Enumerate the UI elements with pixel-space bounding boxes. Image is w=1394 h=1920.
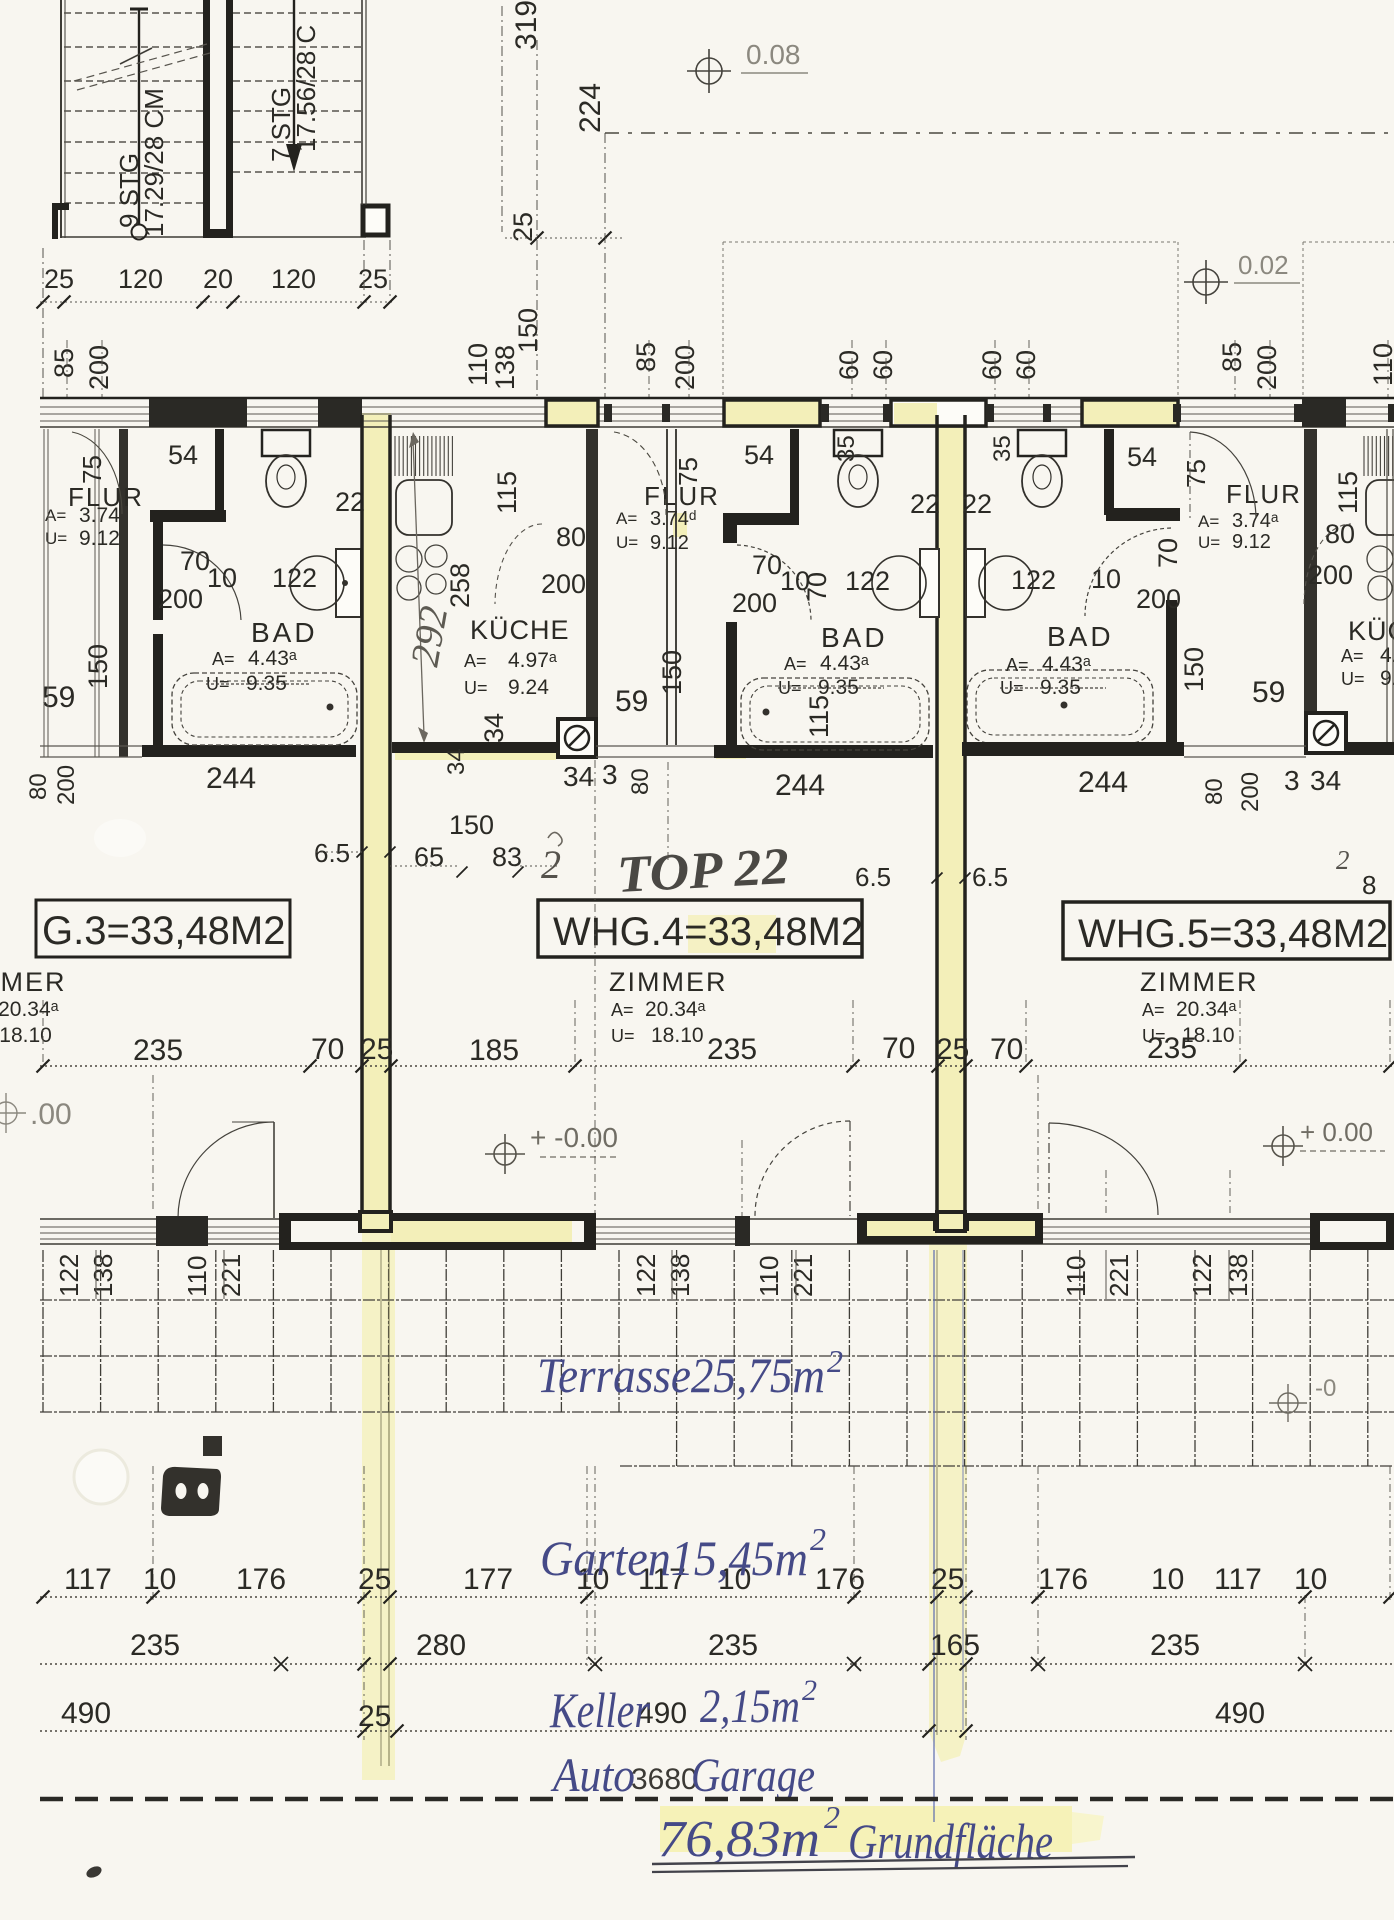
svg-text:9.24: 9.24 — [508, 676, 549, 699]
svg-text:54: 54 — [744, 440, 774, 470]
svg-text:65: 65 — [414, 842, 444, 872]
svg-text:244: 244 — [206, 762, 256, 795]
bottom wall cap unit4 — [735, 1216, 750, 1246]
svg-text:200: 200 — [732, 588, 777, 618]
svg-text:25: 25 — [360, 1033, 393, 1066]
unit4 wash basin — [872, 556, 926, 610]
svg-text:U=: U= — [464, 678, 488, 698]
svg-text:BAD: BAD — [821, 622, 888, 653]
unit4 entrance door arc — [614, 432, 666, 515]
unit5 bathtub outer — [967, 670, 1153, 743]
stair steps flight 1 — [64, 12, 203, 14]
unit4 corridor left wall lines — [666, 429, 668, 745]
unit3 FLUR/54 wall L vertical — [215, 429, 224, 513]
pencil scribble above 2 — [548, 832, 562, 846]
svg-text:54: 54 — [168, 440, 198, 470]
svg-text:115: 115 — [804, 695, 834, 738]
window end caps on top band — [604, 404, 612, 422]
svg-text:59: 59 — [42, 681, 75, 714]
svg-text:110: 110 — [1368, 343, 1394, 386]
kitchen stove burners — [396, 546, 422, 572]
svg-text:4.43ᵃ: 4.43ᵃ — [1042, 653, 1091, 676]
lower dim line 2 — [40, 1663, 1394, 1665]
svg-text:83: 83 — [492, 842, 522, 872]
svg-text:80: 80 — [25, 773, 52, 800]
unit6 kitchen hatch — [1364, 436, 1393, 476]
door leaf unit4 terrace — [849, 1121, 851, 1216]
unit4 BAD bottom wall — [714, 745, 933, 758]
WHG.4 label box — [538, 900, 862, 957]
unit6 bottom wall piece — [1346, 742, 1394, 755]
stair bottom landing line — [61, 236, 366, 238]
lower dim line 3 — [40, 1730, 1394, 1732]
svg-text:235: 235 — [1150, 1629, 1200, 1662]
svg-text:10: 10 — [207, 563, 237, 593]
svg-text:150: 150 — [449, 810, 494, 840]
party wall 1 lower bar edge lines — [380, 1250, 382, 1766]
svg-text:Garten15,45m: Garten15,45m — [540, 1530, 808, 1586]
svg-text:60: 60 — [868, 350, 898, 380]
svg-text:177: 177 — [463, 1563, 513, 1596]
svg-text:2,15m: 2,15m — [700, 1680, 800, 1733]
svg-text:138: 138 — [1223, 1254, 1253, 1297]
svg-text:3.74ᵈ: 3.74ᵈ — [650, 508, 696, 530]
unit3 far-left wall thin double — [43, 429, 45, 757]
svg-text:2: 2 — [827, 1343, 843, 1379]
unit5 sink niche — [966, 549, 985, 617]
highlighter: party wall 2 lower bar — [929, 1227, 967, 1732]
svg-text:6.5: 6.5 — [314, 838, 350, 868]
svg-text:235: 235 — [133, 1034, 183, 1067]
level mark 0.02 — [1184, 260, 1228, 304]
highlighter: top wall chunk unit4 — [726, 403, 818, 426]
svg-text:319: 319 — [510, 0, 543, 50]
svg-text:A=: A= — [611, 1000, 634, 1020]
svg-text:80: 80 — [556, 522, 586, 552]
svg-text:0.08: 0.08 — [746, 39, 801, 70]
corridor threshold lines unit3 left — [40, 745, 142, 747]
svg-text:20: 20 — [203, 264, 233, 294]
vertical dash line x502 — [501, 6, 503, 232]
svg-text:110: 110 — [463, 343, 493, 386]
unit4 sink niche — [920, 549, 939, 617]
svg-text:115: 115 — [1333, 471, 1363, 514]
svg-text:25: 25 — [508, 212, 538, 242]
svg-text:KÜCHE: KÜCHE — [470, 615, 570, 645]
top wall solid segment A (unit3 54-room) — [149, 399, 247, 427]
party wall 2 lower blue line — [933, 1250, 935, 1822]
small ticks near 6.5 labels — [357, 847, 368, 858]
svg-text:2: 2 — [802, 1674, 817, 1707]
svg-text:9.12: 9.12 — [79, 527, 120, 550]
unit4 54-room wall vertical — [790, 429, 799, 514]
svg-text:4.43ᵃ: 4.43ᵃ — [820, 652, 869, 675]
svg-text:6.5: 6.5 — [972, 862, 1008, 892]
party wall2 notch in bottom wall — [937, 1212, 965, 1231]
svg-text:22: 22 — [910, 489, 940, 519]
svg-text:80: 80 — [627, 768, 654, 795]
unit3 WC cistern — [262, 430, 310, 456]
highlighter: unit4 corner at FLUR step — [673, 513, 687, 537]
bottom wall walled rect B — [857, 1213, 1043, 1221]
svg-text:54: 54 — [1127, 442, 1157, 472]
separator verticals between dim pairs — [95, 1250, 97, 1299]
svg-text:138: 138 — [490, 345, 520, 390]
WHG.5 label box — [1063, 902, 1390, 959]
svg-text:110: 110 — [182, 1256, 212, 1297]
party wall 2 olive edge lines — [936, 1250, 938, 1735]
faint balcony outline rect — [723, 241, 1178, 243]
corridor extension dash below unit4 — [667, 762, 669, 862]
svg-text:122: 122 — [631, 1254, 661, 1297]
svg-text:150: 150 — [1179, 647, 1209, 692]
unit4 WC cistern — [834, 430, 882, 456]
terrace tile grid verticals — [43, 1250, 1368, 1466]
svg-text:122: 122 — [54, 1254, 84, 1297]
svg-text:138: 138 — [88, 1254, 118, 1297]
unit5 54-room wall vertical — [1104, 429, 1114, 515]
svg-text:34: 34 — [1310, 765, 1341, 796]
svg-text:3: 3 — [1284, 765, 1300, 796]
right edge kitchen wall lines — [1386, 429, 1388, 742]
svg-text:9.12: 9.12 — [1232, 531, 1271, 553]
unit6 kitchen burners — [1367, 546, 1393, 572]
stair dimension line — [40, 301, 392, 303]
svg-text:8: 8 — [1362, 870, 1376, 900]
kitchen bottom wall — [392, 742, 558, 753]
svg-text:A=: A= — [464, 651, 487, 671]
svg-text:258: 258 — [445, 563, 475, 608]
vertical dash line x605 — [604, 133, 606, 397]
unit3 bathtub inner — [181, 681, 348, 737]
flight 1 center line with circle — [138, 9, 140, 225]
extension lines under top dims — [648, 340, 650, 397]
WHG.3 label box — [36, 900, 290, 957]
party wall 2 bottom cap — [935, 1213, 967, 1229]
party wall 1 black edges — [360, 415, 364, 1222]
stair steps flight 2 — [233, 12, 362, 14]
unit3 FLUR/54 wall L horizontal — [150, 510, 226, 522]
unit5 entrance door arc — [1190, 432, 1256, 518]
svg-text:25: 25 — [931, 1563, 964, 1596]
svg-text:490: 490 — [61, 1697, 111, 1730]
svg-text:165: 165 — [930, 1629, 980, 1662]
highlighter: top wall chunk unit5 — [1084, 403, 1176, 426]
unit3 BAD door arc — [163, 545, 241, 620]
ink speck lower left — [85, 1864, 104, 1880]
svg-text:70: 70 — [802, 572, 832, 602]
svg-text:ZIMMER: ZIMMER — [609, 967, 727, 997]
unit3 corridor wall — [119, 429, 128, 757]
door arc unit4 terrace — [755, 1121, 850, 1216]
svg-text:22: 22 — [962, 489, 992, 519]
unit5 bathtub inner — [976, 678, 1144, 735]
svg-text:2: 2 — [541, 842, 561, 887]
stair right wall double line — [361, 0, 363, 205]
door arc unit3 terrace — [178, 1122, 274, 1218]
svg-text:85: 85 — [1217, 342, 1247, 372]
unit3 sink niche — [336, 549, 361, 617]
extension verticals below stair — [42, 248, 44, 397]
unit6 kitchen sink basin — [1366, 480, 1394, 535]
svg-text:ZIMMER: ZIMMER — [1140, 967, 1258, 997]
svg-text:A=: A= — [784, 654, 807, 674]
pencil measuring arrow in kitchen — [413, 440, 424, 735]
svg-text:A=: A= — [616, 509, 637, 528]
svg-text:122: 122 — [845, 566, 890, 596]
svg-text:75: 75 — [1181, 459, 1211, 488]
unit3 left outer thin wall lines — [94, 429, 96, 757]
svg-text:176: 176 — [1038, 1563, 1088, 1596]
svg-text:115: 115 — [492, 471, 522, 514]
highlighter: bottom wall fill unit4 (right of wall1) — [391, 1221, 572, 1243]
extension verticals to dim row — [42, 1000, 44, 1066]
svg-text:A=: A= — [1142, 1000, 1165, 1020]
highlighter: top wall chunk kitchen u4 — [548, 402, 597, 426]
svg-text:17.56/28 C: 17.56/28 C — [291, 25, 321, 152]
extension verticals lower area — [152, 1466, 154, 1600]
svg-text:235: 235 — [130, 1629, 180, 1662]
svg-text:0.02: 0.02 — [1238, 250, 1289, 280]
svg-text:FLUR: FLUR — [1226, 479, 1302, 509]
door arc unit5 terrace — [1049, 1123, 1158, 1215]
punch hole left middle — [94, 819, 146, 857]
svg-text:2: 2 — [1336, 845, 1350, 875]
top wall solid segment B (unit3 right) — [318, 399, 362, 427]
bottom wall walled rect C right — [1310, 1213, 1394, 1221]
unit4 BAD left wall lower — [726, 622, 737, 745]
svg-text:25: 25 — [936, 1033, 969, 1066]
svg-text:6.5: 6.5 — [855, 862, 891, 892]
top wall segment kitchen u4 (yellow filled) — [546, 400, 598, 426]
svg-text:17.29/28 CM: 17.29/28 CM — [139, 88, 169, 237]
svg-text:70: 70 — [752, 550, 782, 580]
svg-text:224: 224 — [574, 83, 607, 133]
unit4 BAD door arc — [737, 545, 811, 620]
svg-text:20.34ᵃ: 20.34ᵃ — [645, 998, 706, 1021]
svg-text:10: 10 — [1091, 564, 1121, 594]
electric stove symbol unit4 — [558, 719, 596, 757]
svg-text:2: 2 — [810, 1521, 826, 1557]
svg-text:A=: A= — [212, 649, 235, 669]
stair bottom-left L wall — [52, 203, 69, 210]
highlighter: bottom wall fill left of wall2 — [865, 1220, 937, 1239]
svg-text:150: 150 — [83, 644, 113, 689]
svg-text:117: 117 — [64, 1563, 112, 1596]
svg-text:35: 35 — [989, 435, 1016, 462]
highlighter: kitchen bottom wall strip — [395, 749, 556, 760]
svg-text:185: 185 — [469, 1034, 519, 1067]
svg-text:70: 70 — [882, 1032, 915, 1065]
unit3 BAD left wall lower — [153, 634, 163, 746]
top wall segment unit5 54-room (yellow filled) — [1082, 400, 1178, 426]
svg-text:200: 200 — [84, 345, 114, 390]
svg-text:.00: .00 — [30, 1098, 72, 1131]
svg-text:BAD: BAD — [251, 617, 318, 648]
unit3 entrance door arc — [72, 432, 122, 514]
unit5 WC cistern — [1018, 430, 1066, 456]
svg-text:176: 176 — [236, 1563, 286, 1596]
svg-text:85: 85 — [631, 342, 661, 372]
corridor threshold lines unit4 — [596, 745, 714, 747]
svg-text:35: 35 — [833, 435, 860, 462]
svg-text:200: 200 — [670, 345, 700, 390]
svg-text:59: 59 — [1252, 676, 1285, 709]
svg-text:3680: 3680 — [631, 1763, 698, 1796]
kitchen right wall — [586, 429, 598, 745]
svg-text:U=: U= — [1341, 669, 1365, 689]
svg-text:25: 25 — [358, 264, 388, 294]
svg-text:200: 200 — [1308, 560, 1353, 590]
svg-text:200: 200 — [541, 569, 586, 599]
svg-text:2: 2 — [824, 1799, 840, 1835]
corridor threshold lines unit5 — [1184, 745, 1306, 747]
svg-text:60: 60 — [977, 350, 1007, 380]
middle dimension line — [40, 1065, 1394, 1067]
svg-text:+ -0.00: + -0.00 — [530, 1122, 618, 1153]
svg-text:120: 120 — [118, 264, 163, 294]
svg-text:75: 75 — [77, 455, 107, 484]
svg-text:70: 70 — [990, 1033, 1023, 1066]
svg-text:A= 20.34ᵃ: A= 20.34ᵃ — [0, 998, 59, 1021]
svg-text:85: 85 — [49, 348, 79, 378]
ticks on column — [531, 232, 544, 245]
svg-text:110: 110 — [1061, 1256, 1091, 1297]
kitchen door arc dashed — [495, 524, 542, 604]
unit5 54-room wall horizontal — [1106, 508, 1180, 521]
svg-text:Terrasse25,75m: Terrasse25,75m — [537, 1347, 825, 1403]
bottom wall cap unit3 left — [156, 1216, 208, 1246]
highlighter: party wall 2 bar tail — [929, 1732, 967, 1762]
svg-text:235: 235 — [708, 1629, 758, 1662]
svg-text:20.34ᵃ: 20.34ᵃ — [1176, 998, 1237, 1021]
svg-text:120: 120 — [271, 264, 316, 294]
svg-text:76,83m: 76,83m — [658, 1811, 820, 1868]
svg-text:34: 34 — [563, 761, 594, 792]
svg-text:U=: U= — [1198, 533, 1220, 552]
svg-text:60: 60 — [834, 350, 864, 380]
svg-text:235: 235 — [1147, 1032, 1197, 1065]
svg-text:G.3=33,48M2: G.3=33,48M2 — [42, 909, 286, 953]
svg-text:70: 70 — [1153, 538, 1183, 568]
door leaf unit3 terrace — [273, 1122, 275, 1218]
svg-text:122: 122 — [1187, 1254, 1217, 1297]
unit5 wash basin — [979, 556, 1033, 610]
stair left wall lines — [60, 0, 62, 238]
unit4 bathtub inner — [750, 686, 920, 742]
highlighter: bottom wall fill right of wall2 — [966, 1220, 1036, 1239]
electric stove symbol unit6 — [1306, 713, 1346, 753]
svg-text:60: 60 — [1011, 350, 1041, 380]
stair middle wall (double) — [203, 0, 210, 238]
svg-text:75: 75 — [673, 457, 703, 486]
terrace tile grid horizontals — [40, 1300, 1394, 1466]
party wall1 notch in bottom wall — [360, 1212, 391, 1231]
svg-text:U= 18.10: U= 18.10 — [0, 1024, 52, 1047]
svg-text:18.10: 18.10 — [651, 1024, 704, 1047]
unit4 WC bowl — [838, 455, 878, 507]
unit6 kitchen door arc dashed — [1304, 524, 1351, 604]
punch hole lower left — [74, 1450, 128, 1504]
unit3 BAD left wall upper — [153, 522, 163, 620]
svg-text:BAD: BAD — [1047, 621, 1114, 652]
stair diagonal break lines — [74, 44, 207, 81]
highlighter: unit4 bad bottom left strip — [716, 747, 746, 759]
bottom wall walled rect A (unit 3/4 doors) — [279, 1213, 596, 1221]
unit3 bathtub outer — [172, 673, 357, 745]
level mark right lower (terrace) — [1269, 1384, 1307, 1422]
svg-text:200: 200 — [53, 765, 80, 805]
unit3 wash basin — [290, 556, 344, 610]
highlighter: party wall 1 lower bar — [362, 1230, 395, 1780]
vertical dash line x537 — [536, 40, 538, 397]
kitchen sink basin — [396, 480, 452, 535]
svg-text:4.97ᵃ: 4.97ᵃ — [508, 649, 557, 672]
svg-text:59: 59 — [615, 685, 648, 718]
svg-text:200: 200 — [1136, 584, 1181, 614]
svg-text:Keller: Keller — [549, 1682, 650, 1738]
svg-text:25: 25 — [44, 264, 74, 294]
svg-text:117: 117 — [1214, 1563, 1262, 1596]
extension verticals middle band lower — [152, 1075, 154, 1213]
long dashed line y133 — [605, 132, 1394, 134]
svg-text:3: 3 — [602, 759, 618, 790]
level mark center — [485, 1134, 525, 1174]
highlighter: grundflaeche band — [660, 1806, 1072, 1852]
svg-text:200: 200 — [1237, 772, 1264, 812]
top wall segment spanning party wall 2 — [891, 400, 986, 426]
bottom wall window band lines — [40, 1218, 1394, 1220]
flight 2 center line with arrow — [293, 0, 295, 148]
level mark 0.08 — [687, 49, 731, 93]
svg-text:490: 490 — [1215, 1697, 1265, 1730]
extra extension dashes near unit5 door — [1105, 1170, 1107, 1213]
svg-text:176: 176 — [815, 1563, 865, 1596]
svg-text:34: 34 — [443, 748, 470, 775]
svg-text:-0: -0 — [1315, 1375, 1336, 1402]
svg-text:221: 221 — [788, 1254, 818, 1297]
svg-text:122: 122 — [1011, 565, 1056, 595]
svg-text:110: 110 — [754, 1256, 784, 1297]
svg-text:A=: A= — [1006, 655, 1029, 675]
stair pillar square (top of party wall 1) — [363, 206, 388, 235]
left margin level mark circle — [0, 1093, 26, 1133]
top wall segment unit4 54-room (yellow filled) — [724, 400, 820, 426]
svg-text:25: 25 — [358, 1563, 391, 1596]
svg-text:WHG.4=33,48M2: WHG.4=33,48M2 — [553, 910, 863, 954]
svg-text:ZIMMER: ZIMMER — [0, 967, 66, 997]
kitchen hatch (drainboard) — [395, 436, 452, 476]
svg-text:200: 200 — [158, 584, 203, 614]
svg-text:9.12: 9.12 — [650, 532, 689, 554]
svg-text:34: 34 — [479, 713, 509, 743]
unit4 54-room wall horizontal — [723, 513, 799, 525]
svg-text:244: 244 — [1078, 766, 1128, 799]
unit4 FLUR/BAD step wall upper — [723, 513, 737, 543]
svg-text:+ 0.00: + 0.00 — [1300, 1117, 1373, 1147]
svg-text:280: 280 — [416, 1629, 466, 1662]
svg-text:25: 25 — [358, 1700, 391, 1733]
svg-text:Auto: Auto — [550, 1749, 635, 1802]
svg-text:3.74: 3.74 — [79, 504, 120, 527]
highlighter: party wall 1 top — [361, 413, 391, 1230]
lower dim line 1 — [40, 1596, 1394, 1598]
svg-text:TOP 22: TOP 22 — [616, 838, 791, 904]
svg-text:10: 10 — [1151, 1563, 1184, 1596]
top exterior wall: window band lines — [40, 397, 1394, 400]
highlighter: WHG4 box interior tint — [688, 915, 776, 953]
party wall 1 bottom cap — [360, 1213, 391, 1231]
